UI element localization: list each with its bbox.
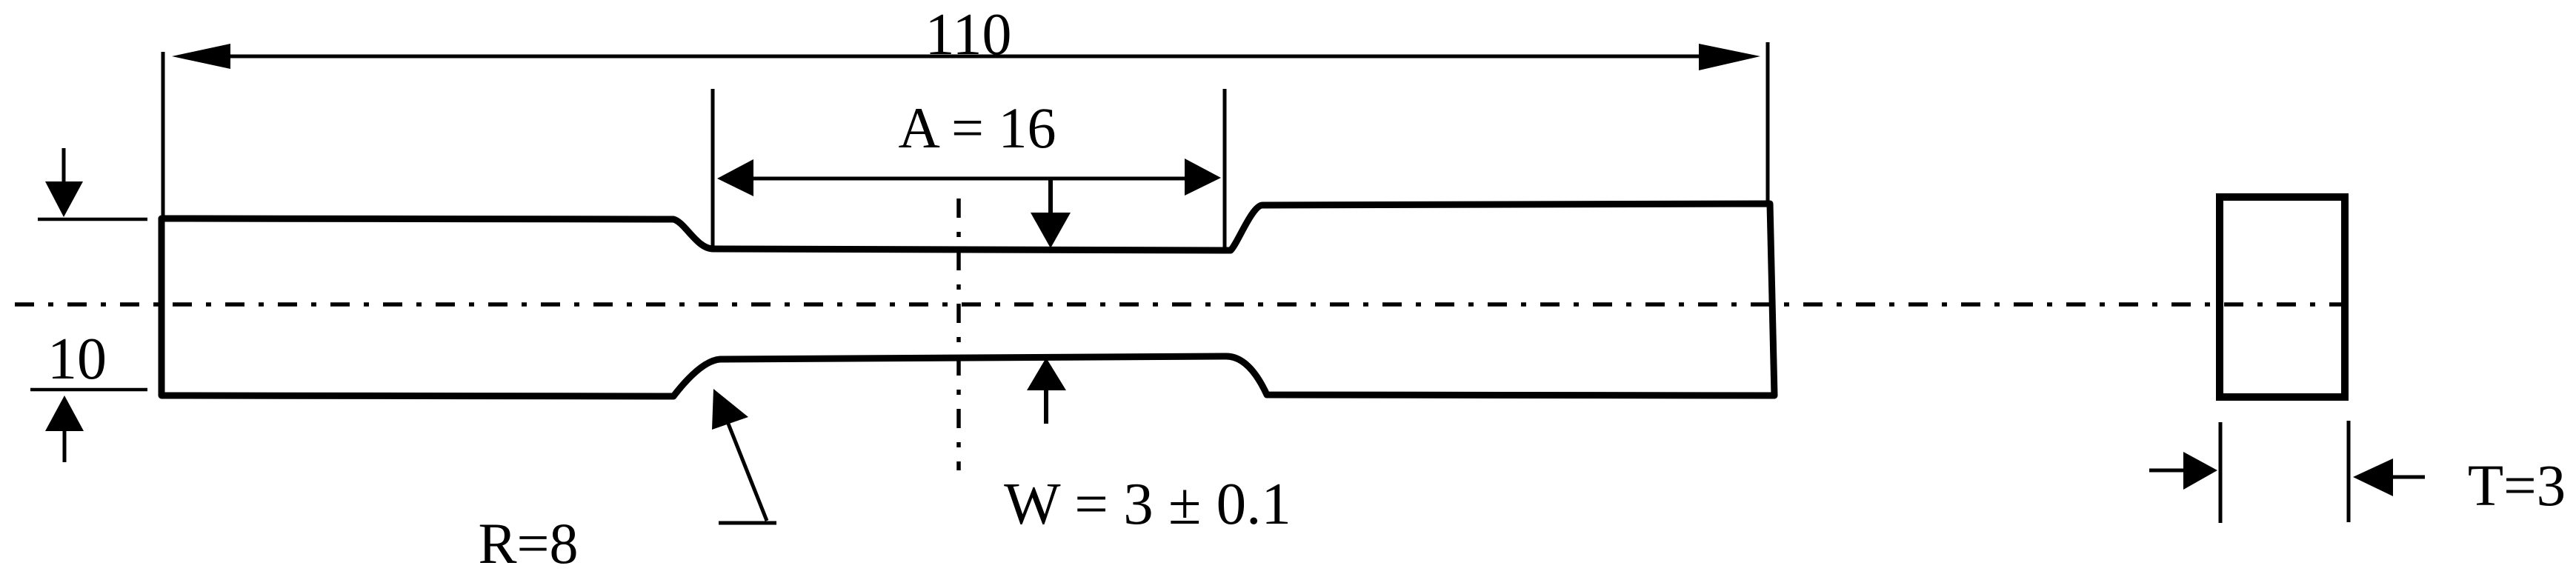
dimension A=16 arrowhead right <box>1185 159 1221 196</box>
dimension 110 arrowhead right <box>1699 44 1760 70</box>
thickness T extension line right <box>2347 421 2351 522</box>
dimension A=16 extension line right <box>1223 89 1227 248</box>
dimension 10 bottom tick <box>30 388 147 392</box>
dimension A=16 arrowhead left <box>717 159 753 196</box>
centerline horizontal axis <box>15 302 2354 307</box>
thickness T extension line left <box>2219 422 2223 523</box>
dimension 10 top arrow (down) <box>62 148 66 185</box>
svg-text:10: 10 <box>47 327 107 392</box>
svg-text:T=3: T=3 <box>2468 454 2566 518</box>
thickness T arrow left (pointing right) <box>2149 469 2187 473</box>
centerline vertical axis <box>956 199 961 470</box>
side view rectangle <box>2220 197 2345 397</box>
dimension 110 extension line right <box>1766 42 1770 204</box>
specimen outline <box>162 204 1774 396</box>
gauge width W arrow top (down) <box>1048 179 1053 215</box>
gauge width W arrow bottom (up) <box>1044 388 1048 424</box>
svg-text:A = 16: A = 16 <box>898 96 1056 160</box>
fillet radius leader arrow <box>727 420 767 521</box>
dimension A=16 line <box>748 177 1189 181</box>
svg-text:R=8: R=8 <box>478 511 578 576</box>
dimension 110 line <box>222 55 1704 59</box>
dimension A=16 extension line left <box>711 89 715 250</box>
dimension 110 arrowhead left <box>172 44 230 69</box>
dimension 10 top tick <box>38 218 147 221</box>
svg-text:W = 3 ± 0.1: W = 3 ± 0.1 <box>1004 470 1291 537</box>
fillet radius leader base tick <box>719 521 776 525</box>
thickness T arrow right (pointing left) <box>2389 476 2425 479</box>
dimension 110 extension line left <box>162 52 165 216</box>
svg-text:110: 110 <box>925 2 1011 67</box>
dimension 10 bottom arrow (up) <box>63 428 67 462</box>
